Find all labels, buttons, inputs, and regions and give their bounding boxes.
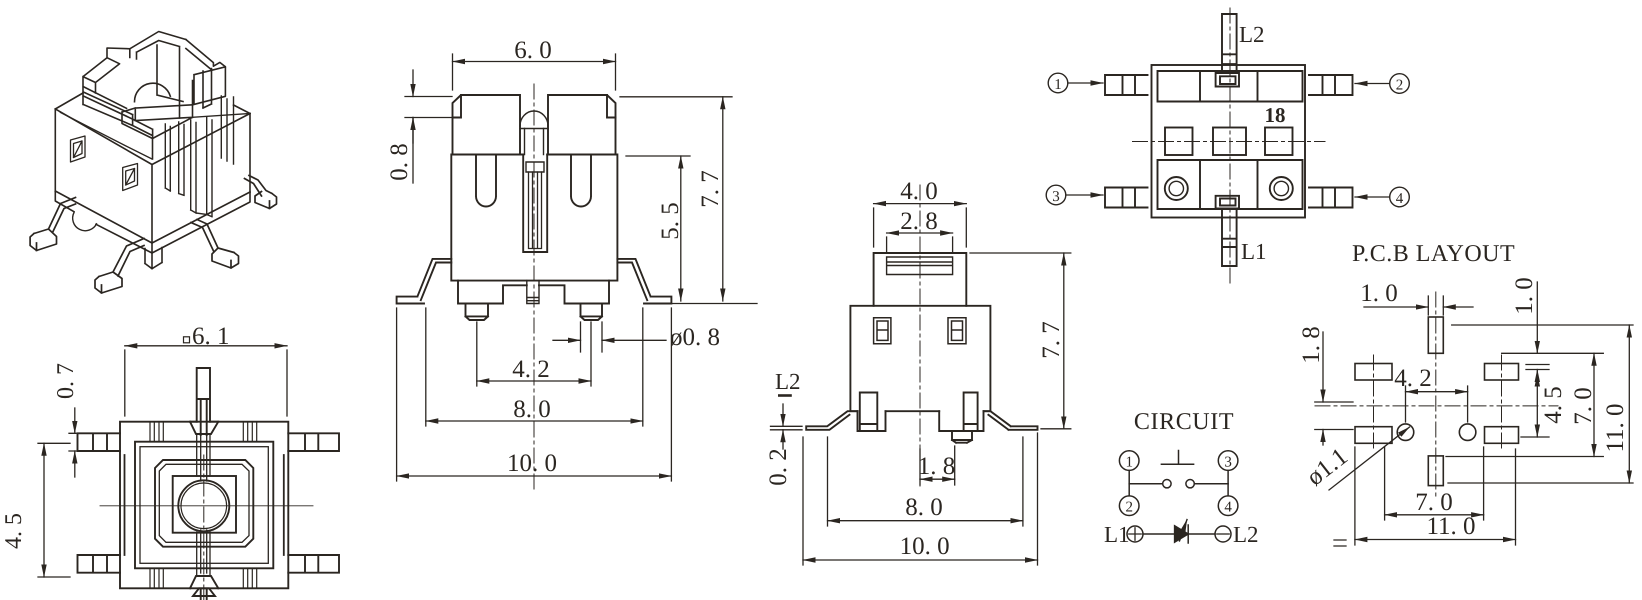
- iso dome: [134, 83, 170, 101]
- left leg bracket: [858, 411, 886, 431]
- pin 4 lead: [1309, 188, 1353, 208]
- svg-text:4. 2: 4. 2: [1394, 365, 1432, 392]
- dim 4.5 extensions: [38, 443, 70, 577]
- top collar: [190, 422, 218, 434]
- dim 5.5 extension: [626, 155, 690, 157]
- central plunger slot: [523, 155, 547, 253]
- L1 pin collar: [1216, 196, 1239, 209]
- dim 10.0 line: [803, 559, 1038, 561]
- dim 1.0 top-left extensions: [1428, 296, 1443, 315]
- iso right face channel 2: [191, 118, 212, 217]
- dim 0.2 extensions: [771, 426, 803, 430]
- left bottom pin nub: [466, 304, 489, 321]
- dim 2.8 extensions: [887, 237, 953, 252]
- pin top-left: [78, 433, 121, 451]
- svg-text:1: 1: [1054, 77, 1062, 93]
- iso led bump: [73, 213, 97, 231]
- pad top: [1428, 317, 1443, 353]
- svg-text:11. 0: 11. 0: [1426, 513, 1475, 540]
- pin top-right: [288, 433, 339, 451]
- svg-text:4. 5: 4. 5: [1540, 386, 1567, 424]
- pin bottom-right: [288, 555, 339, 573]
- iso leg front-right: [191, 220, 239, 269]
- dim 10.0 extensions: [803, 433, 1038, 565]
- svg-text:L2: L2: [775, 369, 801, 394]
- dim 1.8 arrows: [920, 478, 955, 480]
- dim 10.0 extensions: [397, 308, 672, 481]
- callout 4: [1390, 187, 1410, 207]
- svg-text:8. 0: 8. 0: [513, 396, 551, 423]
- hole right: [1459, 424, 1476, 441]
- bottom base plate right: [539, 281, 609, 304]
- svg-text:3: 3: [1052, 189, 1060, 205]
- dim 4.2 line: [1406, 391, 1468, 393]
- dim 4.5 right extension: [1521, 436, 1549, 438]
- svg-text:1. 8: 1. 8: [1298, 326, 1325, 364]
- dim 11.0 right extensions: [1448, 325, 1633, 483]
- right gull wing: [984, 411, 1038, 430]
- iso body top face rim: [61, 113, 251, 160]
- left terminal circle: [1165, 177, 1188, 200]
- dim 7.7 line: [722, 97, 724, 301]
- pin 2 lead: [1309, 75, 1353, 95]
- pad right-bottom: [1485, 427, 1519, 444]
- iso leg front-left: [95, 239, 144, 294]
- svg-text:1. 0: 1. 0: [1511, 277, 1538, 315]
- top view frame 3 chamfered: [155, 460, 253, 547]
- iso leg back-right: [245, 176, 277, 209]
- plunger shaft: [529, 172, 542, 249]
- bottom contact band: [1158, 160, 1303, 209]
- center shaft bottom: [527, 281, 539, 304]
- dim 11.0 bottom extensions: [1355, 447, 1516, 545]
- wire right vertical: [1227, 471, 1229, 496]
- svg-text:6. 0: 6. 0: [514, 37, 552, 64]
- middle square right: [1265, 128, 1293, 156]
- dim 1.0 right arrows: [1536, 282, 1538, 353]
- dim 4.2 extensions: [477, 322, 591, 386]
- bottom-left ticks: [1334, 540, 1346, 546]
- svg-text:0. 8: 0. 8: [386, 143, 413, 181]
- svg-text:7. 7: 7. 7: [1038, 321, 1065, 359]
- left leg tab: [860, 393, 878, 432]
- svg-text:P.C.B LAYOUT: P.C.B LAYOUT: [1352, 241, 1515, 267]
- side shadow lines: [125, 455, 284, 555]
- svg-text:L2: L2: [1233, 522, 1259, 547]
- L2 pin tick: [779, 394, 790, 397]
- svg-text:3: 3: [1224, 455, 1232, 471]
- dim 6.1 line: [125, 345, 287, 347]
- dim 2.8 line: [887, 232, 953, 234]
- svg-text:CIRCUIT: CIRCUIT: [1134, 409, 1234, 435]
- pcb vertical centerline: [1435, 292, 1437, 500]
- side centerline: [919, 185, 921, 487]
- L2 minus terminal: [1215, 526, 1231, 542]
- right gull-wing leg: [617, 259, 671, 304]
- terminal 1: [1119, 451, 1139, 471]
- contact left: [1163, 480, 1171, 488]
- top view frame 2: [140, 447, 268, 564]
- dim 10.0 line: [397, 475, 672, 477]
- top stem: [197, 368, 210, 435]
- keycap lip steps: [453, 95, 616, 118]
- middle square center: [1213, 128, 1246, 156]
- dim dia0.8 arrows: [553, 339, 581, 341]
- dim 6.1 extensions: [125, 350, 287, 416]
- svg-text:10. 0: 10. 0: [507, 450, 557, 477]
- svg-text:L1: L1: [1104, 522, 1130, 547]
- pad column centerline right: [1501, 355, 1503, 452]
- plunger shaft block: [526, 162, 544, 172]
- bottom view horizontal centerline: [1133, 141, 1326, 143]
- dim 7.7 extensions: [970, 253, 1071, 429]
- bottom base plate left: [458, 281, 527, 304]
- dim 7.0 right line: [1593, 353, 1595, 456]
- iso front base block: [145, 248, 162, 269]
- terminal 2: [1119, 496, 1139, 516]
- iso hole 2: [123, 164, 138, 191]
- svg-text:11. 0: 11. 0: [1602, 403, 1629, 452]
- dim 7.0 bottom line: [1385, 514, 1484, 516]
- LED diode: [1175, 526, 1189, 542]
- svg-text:10. 0: 10. 0: [900, 533, 950, 560]
- LED dome in cap slot: [520, 111, 548, 129]
- terminal 3: [1218, 451, 1238, 471]
- pin 1 lead: [1105, 75, 1148, 95]
- svg-text:4. 2: 4. 2: [512, 356, 550, 383]
- LED cathode wire: [1188, 533, 1215, 535]
- L2 pin collar: [1216, 73, 1239, 87]
- svg-text:2: 2: [1396, 78, 1404, 94]
- iso hole 1: [71, 136, 86, 162]
- L1 pin bottom: [1222, 208, 1237, 266]
- dim 0.7 extensions: [69, 433, 76, 451]
- iso body box: [55, 109, 250, 243]
- right leg tab: [964, 393, 978, 432]
- dim 0.7 arrows: [74, 408, 76, 433]
- actuator symbol: [1161, 451, 1193, 465]
- pad left-top: [1355, 364, 1392, 381]
- bottom view body: [1152, 65, 1306, 218]
- right leg bracket: [939, 411, 983, 431]
- svg-text:ø0. 8: ø0. 8: [670, 324, 720, 351]
- svg-text:4. 5: 4. 5: [1, 513, 27, 549]
- callout 2: [1390, 74, 1410, 94]
- dim 7.7 line: [1063, 253, 1065, 429]
- crosshair horizontal: [100, 505, 313, 507]
- svg-text:L2: L2: [1239, 22, 1265, 47]
- hole left: [1397, 424, 1414, 441]
- wire left to contact: [1129, 483, 1163, 485]
- top contact band: [1158, 71, 1303, 102]
- side view body: [850, 306, 990, 411]
- dim 1.8 extensions: [1315, 402, 1353, 430]
- dim 4.0 extensions: [874, 208, 967, 247]
- svg-text:1. 8: 1. 8: [918, 453, 956, 480]
- svg-text:L1: L1: [1241, 239, 1267, 264]
- iso cap left wing: [83, 48, 130, 105]
- castellation lines top-right corner: [243, 422, 256, 442]
- LED light arrow: [1180, 520, 1188, 542]
- LED anode wire: [1143, 533, 1175, 535]
- left gull wing: [806, 411, 857, 430]
- side view button window: [887, 257, 953, 275]
- terminal 4: [1218, 496, 1238, 516]
- dim 0.8 arrows: [412, 70, 414, 97]
- contact right: [1186, 480, 1194, 488]
- switch body front view: [451, 155, 617, 281]
- dim 7.7 extension: [620, 96, 732, 98]
- L1 pin nub below: [952, 431, 972, 443]
- right bottom pin nub: [581, 304, 603, 321]
- callout 1: [1048, 73, 1068, 93]
- svg-text:6. 1: 6. 1: [192, 323, 230, 350]
- stem through frames top: [197, 434, 210, 481]
- iso right corner edges: [221, 96, 233, 164]
- pad left-bottom: [1355, 427, 1392, 444]
- svg-text:4. 0: 4. 0: [900, 178, 938, 205]
- left U slot: [476, 155, 496, 207]
- svg-text:0. 7: 0. 7: [53, 363, 79, 399]
- iso base slab: [55, 191, 250, 253]
- right terminal circle: [1270, 177, 1293, 200]
- dim 6.1 square symbol: [184, 337, 190, 343]
- svg-text:18: 18: [1265, 103, 1286, 127]
- svg-text:7. 0: 7. 0: [1570, 387, 1597, 425]
- svg-text:4: 4: [1224, 500, 1232, 516]
- svg-text:4: 4: [1396, 191, 1404, 207]
- top view outer body square: [120, 422, 288, 589]
- foot baseline extension right: [646, 303, 757, 305]
- dim 8.0 line: [426, 420, 643, 422]
- svg-text:5. 5: 5. 5: [657, 202, 684, 240]
- top view frame 1: [135, 442, 273, 569]
- dia 1.1 leader: [1329, 427, 1410, 490]
- top view plunger circle inner: [181, 483, 227, 529]
- bottom view vertical centerline: [1229, 8, 1231, 287]
- dim 8.0 line: [828, 520, 1023, 522]
- castellation lines bottom-right corner: [243, 568, 256, 588]
- iso leg back-left: [30, 198, 75, 251]
- dim 6.0 line: [453, 61, 616, 63]
- dim 11.0 right line: [1628, 325, 1630, 483]
- iso cap back wall top: [130, 32, 186, 119]
- dim dia0.8 extensions: [581, 322, 603, 352]
- dim 1.0 top-left arrows: [1364, 306, 1428, 308]
- svg-text:1: 1: [1125, 455, 1133, 471]
- callout 3: [1046, 185, 1066, 205]
- left gull-wing leg: [397, 259, 452, 304]
- dim 1.0 right extension ticks: [1526, 365, 1549, 370]
- centerline front: [533, 84, 535, 489]
- wire left vertical: [1128, 471, 1130, 496]
- side body right window: [948, 318, 966, 344]
- dim 8.0 extensions: [828, 437, 1023, 526]
- svg-text:7. 7: 7. 7: [697, 170, 724, 208]
- bottom collar: [190, 576, 218, 588]
- dim 4.0 line: [874, 203, 967, 205]
- svg-text:ø1.1: ø1.1: [1302, 443, 1353, 491]
- keycap front view: [453, 95, 616, 155]
- svg-text:8. 0: 8. 0: [905, 494, 943, 521]
- top view inner square: [173, 476, 236, 533]
- stem through frames bottom: [197, 530, 210, 576]
- dim 7.0 bottom extensions: [1385, 447, 1484, 520]
- pin 3 lead: [1105, 188, 1148, 208]
- dim 4.5 right line: [1536, 374, 1538, 437]
- centerline vertical: [203, 455, 205, 600]
- dim 1.8 extension: [920, 446, 955, 485]
- pin bottom-left: [78, 555, 121, 573]
- bottom stem: [193, 588, 215, 600]
- iso cap right wall: [186, 40, 226, 118]
- iso cap front wall: [122, 105, 193, 159]
- top view plunger circle: [178, 480, 229, 531]
- iso body top face back edges: [55, 93, 250, 114]
- dim 1.8 arrows: [1322, 332, 1324, 402]
- dim 5.5 line: [680, 156, 682, 301]
- dim 0.8 extension lines: [405, 97, 452, 118]
- dim 6.0 extension lines: [453, 54, 616, 90]
- pad right-top: [1485, 364, 1519, 381]
- wire contact to right: [1194, 483, 1228, 485]
- dim 7.0 right extensions: [1446, 353, 1603, 456]
- middle square left: [1165, 128, 1193, 156]
- svg-text:0. 2: 0. 2: [765, 448, 792, 486]
- iso cap ledge: [83, 87, 152, 139]
- dim 4.2 extensions: [1406, 386, 1468, 422]
- dim 11.0 bottom line: [1355, 539, 1516, 541]
- pad column centerline left: [1373, 355, 1375, 452]
- side view button: [874, 253, 967, 306]
- iso right face channel 1: [165, 122, 184, 195]
- dim 4.2 line: [477, 380, 591, 382]
- castellation lines bottom-left corner: [150, 568, 163, 588]
- L1 plus terminal: [1127, 526, 1143, 542]
- svg-text:1. 0: 1. 0: [1360, 280, 1398, 307]
- pad bottom: [1428, 456, 1443, 486]
- side body left window: [874, 318, 891, 344]
- cap slot inner walls: [525, 129, 544, 155]
- pcb horizontal centerline: [1315, 405, 1558, 407]
- top view frame 4: [159, 464, 249, 542]
- svg-text:2. 8: 2. 8: [900, 208, 938, 235]
- dim 8.0 extensions: [426, 308, 643, 426]
- castellation lines top-left corner: [150, 422, 163, 442]
- L2 pin top: [1222, 14, 1237, 73]
- svg-text:7. 0: 7. 0: [1415, 489, 1453, 516]
- dim 4.5 line: [43, 443, 45, 577]
- dim 0.2 arrows: [782, 404, 784, 426]
- right U slot: [571, 155, 591, 207]
- svg-text:2: 2: [1125, 500, 1133, 516]
